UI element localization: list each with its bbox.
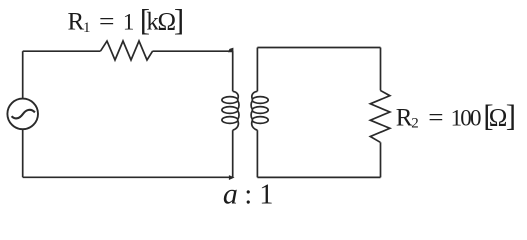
ac source VS circle bbox=[7, 99, 38, 130]
svg-text:=: = bbox=[428, 104, 443, 131]
wire: left loop left vertical (above source) bbox=[22, 51, 24, 98]
transformer primary coil L1: connector 1-2 bbox=[238, 101, 239, 109]
svg-text:1: 1 bbox=[123, 10, 134, 35]
svg-text:1: 1 bbox=[259, 179, 273, 210]
transformer primary coil L1: top hook bbox=[233, 91, 239, 99]
resistor R2 bbox=[370, 90, 390, 142]
wire: left loop bottom horizontal bbox=[23, 176, 232, 178]
svg-text:2: 2 bbox=[411, 115, 419, 131]
transformer secondary coil L2: loop 3 bbox=[252, 117, 268, 124]
wire: right loop right vertical (above R2) bbox=[380, 48, 382, 91]
wire: left loop left vertical (below source) bbox=[22, 129, 24, 177]
wire: left loop top horizontal (left of R1) bbox=[23, 50, 101, 52]
junction arrowhead at top of primary bbox=[228, 48, 234, 53]
transformer secondary coil L2: bottom lead bbox=[256, 130, 258, 177]
transformer primary coil L1: bottom hook bbox=[233, 121, 239, 130]
wire: left loop top horizontal (right of R1) bbox=[153, 50, 232, 52]
transformer primary coil L1: loop 2 bbox=[222, 107, 238, 114]
transformer primary coil L1: top lead bbox=[232, 51, 234, 91]
transformer primary coil L1: loop 1 bbox=[222, 97, 238, 104]
transformer primary coil L1: loop 3 bbox=[222, 117, 238, 124]
transformer primary coil L1: bottom lead bbox=[232, 130, 234, 177]
svg-text:=: = bbox=[99, 9, 115, 36]
svg-text:Ω: Ω bbox=[489, 104, 508, 131]
transformer secondary coil L2: connector 2-3 bbox=[251, 111, 252, 119]
transformer secondary coil L2: bottom hook bbox=[252, 121, 258, 130]
svg-text:]: ] bbox=[506, 98, 516, 133]
svg-text:a: a bbox=[223, 177, 238, 210]
transformer secondary coil L2: top hook bbox=[252, 91, 258, 99]
transformer secondary coil L2: top lead bbox=[256, 48, 258, 92]
transformer secondary coil L2: loop 2 bbox=[252, 107, 268, 114]
svg-text:100: 100 bbox=[451, 105, 481, 130]
transformer secondary coil L2: loop 1 bbox=[252, 97, 268, 104]
svg-text:]: ] bbox=[174, 2, 184, 37]
svg-text:R: R bbox=[68, 9, 85, 36]
svg-text:1: 1 bbox=[83, 20, 91, 36]
junction arrowhead at bottom of primary bbox=[229, 175, 235, 180]
transformer primary coil L1: connector 2-3 bbox=[238, 111, 239, 119]
wire: right loop top horizontal bbox=[257, 47, 380, 49]
wire: right loop bottom horizontal bbox=[257, 176, 380, 178]
svg-text::: : bbox=[244, 179, 252, 210]
ac source sine wave bbox=[12, 110, 35, 119]
wire: right loop right vertical (below R2) bbox=[380, 142, 382, 177]
resistor R1 bbox=[101, 41, 153, 60]
transformer secondary coil L2: connector 1-2 bbox=[251, 101, 252, 109]
